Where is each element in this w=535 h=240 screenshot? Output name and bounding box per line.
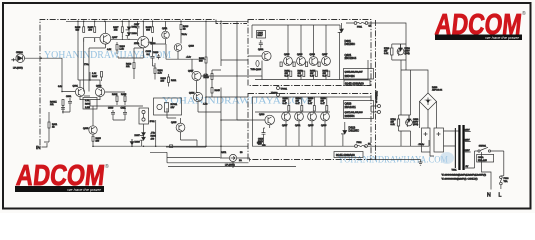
svg-text:500V: 500V [258, 35, 264, 37]
capacitor C605 [146, 51, 155, 61]
svg-text:DS135C: DS135C [349, 129, 360, 133]
svg-text:we have the power: we have the power [485, 35, 519, 40]
wires to N and fuse [475, 151, 504, 190]
svg-text:4BPC6-04: 4BPC6-04 [432, 90, 443, 92]
series resistor on rail [170, 145, 173, 148]
transistor Q617 [192, 71, 201, 80]
transistor Q627 [282, 112, 291, 121]
svg-text:Q625: Q625 [284, 54, 290, 56]
svg-text:Q627: Q627 [282, 125, 288, 127]
feedback network box R609 [83, 98, 97, 110]
svg-text:IN: IN [36, 145, 41, 150]
svg-text:T-G08640(220V) ONLY): T-G08640(220V) ONLY) [442, 179, 478, 181]
svg-text:C609: C609 [108, 108, 114, 110]
wire top rail inside upper box [248, 25, 340, 76]
diode D607 [140, 124, 145, 136]
capacitor C601 [66, 96, 72, 106]
emitter resistor R656 [308, 98, 315, 111]
resistor R613 [126, 48, 143, 79]
svg-text:®: ® [522, 10, 526, 17]
transistor Q613 [174, 44, 182, 52]
svg-text:Q639: Q639 [321, 125, 327, 127]
thermal part TUB-Q210 [256, 61, 259, 67]
diode D609 [140, 136, 145, 147]
svg-text:C60A: C60A [478, 156, 484, 159]
svg-text:TP601: TP601 [281, 89, 288, 91]
svg-text:T601: T601 [452, 169, 458, 171]
diode D611 [338, 23, 344, 80]
ADCOM logo top right [434, 9, 526, 41]
transistor Q625 [284, 57, 293, 66]
wires into boxes [166, 60, 248, 147]
resistor R617 [113, 21, 123, 37]
bridge rectifier D900 [420, 87, 443, 110]
svg-text:®: ® [105, 163, 109, 170]
svg-text:120V: 120V [465, 150, 471, 152]
transistor Q637 [322, 57, 331, 66]
resistor R621 cluster [161, 74, 178, 87]
capacitor C607 [134, 21, 140, 32]
svg-text:2SA1011: 2SA1011 [345, 105, 357, 109]
wire long vertical from Q607 [78, 21, 105, 91]
long vertical wires center [166, 21, 248, 158]
svg-text:R627: R627 [92, 76, 98, 78]
transformer T601 secondary bars [458, 125, 460, 170]
svg-text:N: N [487, 193, 491, 199]
resistor R615 [92, 134, 102, 147]
svg-text:Q637: Q637 [322, 54, 328, 56]
svg-text:014E-1039A00: 014E-1039A00 [336, 153, 355, 157]
svg-text:TUB-Q210: TUB-Q210 [251, 69, 262, 71]
svg-text:78.5v: 78.5v [182, 34, 188, 36]
fuse F602 [355, 142, 372, 147]
capacitor C617 [259, 40, 263, 48]
svg-text:LPL(GFA): LPL(GFA) [225, 164, 235, 167]
svg-text:JP62: JP62 [150, 121, 156, 123]
fuse F600 [500, 176, 510, 189]
test point TP601 [277, 87, 280, 90]
main board boundary dash-dot [40, 20, 247, 146]
resistor R643 [204, 70, 222, 88]
top supply rail [66, 20, 248, 22]
svg-text:TP602: TP602 [271, 93, 278, 95]
speaker terminal SP620 [371, 91, 381, 114]
wire caps to gnd [113, 106, 143, 120]
svg-text:F602: F602 [357, 142, 363, 144]
ground symbol right of lower box [371, 160, 423, 166]
svg-text:D607: D607 [135, 135, 141, 137]
svg-text:YOHANINDRAWIJAYA.COM: YOHANINDRAWIJAYA.COM [338, 156, 448, 166]
svg-text:R609: R609 [85, 104, 91, 106]
emitter resistor R652 [283, 98, 290, 111]
svg-text:R671: R671 [221, 152, 227, 154]
svg-text:KSA-135: KSA-135 [478, 159, 488, 162]
svg-text:Q603: Q603 [96, 86, 102, 88]
relay RY601 box [154, 98, 182, 115]
zener D720 [397, 44, 410, 56]
svg-text:R621: R621 [171, 80, 177, 82]
capacitor C615 [257, 31, 266, 39]
resistor R663 cluster [151, 133, 157, 141]
transistor Q633 [309, 57, 318, 66]
base resistors row [280, 62, 282, 67]
resistor R629 [180, 21, 189, 43]
svg-text:2SB554: 2SB554 [345, 114, 355, 118]
transistor Q605 [89, 126, 97, 134]
svg-text:Q613: Q613 [189, 46, 195, 48]
wire from fuse F602 right [368, 140, 430, 146]
svg-text:C607: C607 [134, 24, 140, 26]
svg-text:C605: C605 [146, 51, 152, 53]
diode D605 on rail [130, 139, 134, 145]
svg-text:C613: C613 [153, 52, 159, 54]
wire top rail to right [346, 23, 406, 70]
svg-text:2.2M: 2.2M [85, 107, 90, 109]
input jack CN601 [11, 52, 24, 70]
svg-text:SP620(B)(L): SP620(B)(L) [376, 91, 378, 103]
board code label 014E-1038A00 [344, 80, 370, 86]
resistor R641 [199, 50, 207, 71]
svg-text:R643: R643 [204, 77, 210, 79]
junction dots rail [61, 21, 222, 147]
output connector CN603 [220, 152, 250, 168]
svg-text:12V: 12V [171, 107, 175, 109]
capacitor C603 [61, 108, 65, 114]
emitter resistor R658 [321, 98, 328, 111]
svg-text:T5A: T5A [504, 180, 509, 183]
board code label 014E-1039A00 [334, 152, 363, 158]
svg-text:SW601: SW601 [479, 145, 487, 147]
wire bridge to transformer secondary [430, 131, 459, 156]
center-mid components: resistor R631 [154, 63, 164, 80]
svg-text:Q617: Q617 [188, 71, 194, 73]
wire input to stage [25, 58, 63, 91]
wires R722/D722 net [399, 115, 411, 131]
bridge wires [401, 70, 437, 128]
svg-text:D603: D603 [132, 33, 138, 35]
svg-text:Q615: Q615 [171, 122, 177, 124]
svg-text:F600: F600 [504, 178, 510, 180]
svg-text:RY601: RY601 [171, 104, 178, 106]
transistor Q635 [308, 112, 317, 121]
boxed label output devices [344, 69, 374, 80]
wires R720/D720 net [392, 44, 406, 60]
capacitor C611 [121, 108, 128, 121]
wires lower-left [44, 106, 113, 142]
switch SW601 [475, 145, 504, 152]
svg-text:C601: C601 [66, 96, 72, 98]
diode D613 [341, 122, 347, 146]
svg-text:R633: R633 [112, 94, 118, 96]
junction dots on rail [83, 21, 85, 23]
transformer primary line [454, 128, 456, 168]
resistor R607 [88, 21, 96, 41]
resistor R645 [211, 87, 221, 97]
wire bottom rail inside upper box [255, 60, 368, 80]
transistor Q621 [262, 51, 271, 60]
svg-text:Q607: Q607 [112, 37, 118, 39]
svg-text:240V: 240V [465, 130, 471, 132]
resistor R611 [48, 112, 58, 142]
svg-text:R635: R635 [121, 94, 127, 96]
svg-text:we have the power: we have the power [67, 187, 101, 192]
resistor R722 [391, 115, 400, 131]
switch box KSA-135 [477, 154, 494, 162]
zener D722 [406, 115, 419, 127]
lower output board box [248, 94, 371, 160]
svg-text:DS135C: DS135C [345, 42, 356, 46]
svg-text:F601: F601 [357, 27, 363, 29]
transistor Q607 [100, 33, 111, 44]
resistor R619 [116, 42, 126, 54]
watermark blue smudge near transformer [440, 152, 454, 164]
svg-text:C611: C611 [121, 108, 127, 110]
resistor value text [257, 143, 266, 148]
long vertical wires right of boxes [401, 60, 411, 146]
transformer taps [465, 132, 475, 169]
mid h wire [118, 44, 166, 66]
resistor R605 [75, 21, 85, 41]
wire main rail through lower box [248, 97, 355, 146]
wire loop to transformer [422, 128, 431, 152]
differential pair Q601 [75, 87, 84, 96]
emitter resistor R657 [323, 71, 330, 78]
wire top rail inside lower box [252, 97, 371, 112]
resistor R635 [121, 93, 127, 105]
capacitor C618 [262, 128, 266, 146]
wires center column [93, 139, 248, 146]
bottom output path: step wires [150, 120, 296, 167]
svg-text:Q631: Q631 [295, 125, 301, 127]
resistor R720 [384, 44, 393, 60]
upper output board box [248, 20, 371, 86]
svg-text:LPL(GFA): LPL(GFA) [13, 67, 23, 70]
diode D601 [126, 21, 131, 30]
differential pair Q603 [95, 87, 104, 96]
svg-text:2SC2344: 2SC2344 [345, 56, 357, 60]
svg-text:L: L [499, 193, 502, 199]
transistor Q639 [321, 112, 330, 121]
svg-text:Q619: Q619 [189, 93, 195, 95]
svg-text:(680): (680) [405, 53, 410, 55]
emitter resistor R655 [310, 71, 317, 78]
resistor R627 cluster [92, 72, 103, 82]
emitter resistor R653 [298, 71, 305, 78]
resistor R625 [146, 21, 154, 41]
chassis boundary dash-dot [375, 20, 377, 160]
input bias R601Z [50, 100, 64, 113]
fuse F601 on top rail [354, 22, 372, 29]
svg-text:(680): (680) [413, 124, 418, 126]
test point TP602 [277, 93, 280, 96]
svg-text:Q635: Q635 [308, 125, 314, 127]
svg-text:T-G08610(120V,220V,240V): T-G08610(120V,220V,240V) [442, 174, 487, 176]
svg-text:R645: R645 [215, 90, 221, 92]
svg-text:Q633: Q633 [310, 54, 316, 56]
svg-text:CN601: CN601 [16, 52, 24, 54]
svg-text:D609: D609 [135, 142, 141, 144]
svg-text:Q623: Q623 [259, 114, 265, 116]
diode D603 [126, 30, 131, 39]
resistor R633 [112, 93, 118, 105]
ADCOM logo bottom left [15, 160, 109, 192]
transistor Q631 [295, 112, 304, 121]
capacitor C609 [108, 108, 115, 121]
emitter resistor R651 [285, 71, 292, 78]
transistor Q619 [193, 92, 202, 101]
svg-text:Q605: Q605 [83, 128, 89, 130]
transistor Q629 [297, 57, 306, 66]
emitter resistor R654 [296, 98, 303, 111]
wires diff pair [62, 72, 125, 106]
relay/jumper JP602 [139, 108, 155, 124]
transistor Q609 [138, 36, 149, 47]
svg-text:2SD424: 2SD424 [345, 74, 356, 78]
svg-text:Q629: Q629 [297, 54, 303, 56]
transistor Q623 pre-driver [265, 115, 275, 125]
svg-text:Q601: Q601 [73, 86, 79, 88]
capacitor C613 [153, 52, 161, 59]
svg-text:Q611: Q611 [162, 28, 168, 30]
svg-text:220V: 220V [465, 140, 471, 142]
boxed label lower output devices [344, 101, 374, 119]
transistor Q611 [162, 31, 170, 39]
svg-text:273A: 273A [134, 42, 140, 45]
transistor Q615 [176, 123, 185, 132]
wires upper-left interconnect [84, 21, 166, 91]
svg-text:014E-1038A00: 014E-1038A00 [345, 81, 364, 85]
svg-text:Q621: Q621 [258, 49, 264, 51]
